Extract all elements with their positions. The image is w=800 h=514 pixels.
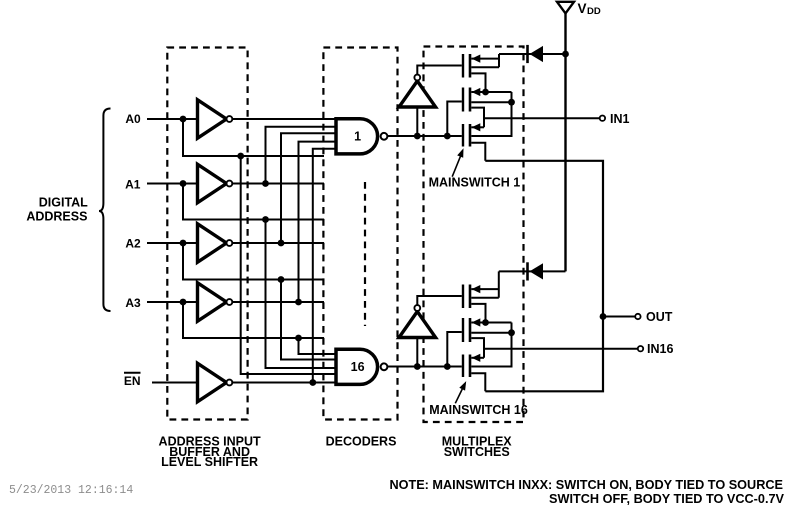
wire Q6 drain tap to body node (471, 333, 511, 367)
wire A3 input (147, 301, 198, 303)
junction A0 input (180, 116, 187, 123)
svg-text:OUT: OUT (646, 310, 673, 324)
wire rail A1-not to decoder 1 (266, 127, 337, 184)
svg-text:NOTE: MAINSWITCH INXX: SWITCH: NOTE: MAINSWITCH INXX: SWITCH ON, BODY T… (389, 478, 783, 492)
wire rail A2-not to decoder 1 (281, 133, 336, 243)
junction VDD / diode D1 (562, 51, 569, 58)
svg-text:A1: A1 (125, 177, 141, 191)
junction Q1 source / Q2 body (482, 89, 489, 96)
wire Q1 source to Q2 body (471, 73, 485, 92)
wire Q2 source to Q3 body (471, 108, 484, 128)
transistor Q1 body-tie switch (group 1 top) (463, 54, 470, 78)
wire rail A0 to decoder 16 (241, 156, 337, 374)
buffer U3 (A2) (198, 224, 233, 262)
junction A0 bypass tap (237, 153, 244, 160)
junction A1-not rail tap (262, 180, 269, 187)
digital address brace (99, 109, 111, 312)
transistor Q2 body-tie switch (group 1 middle) (463, 88, 470, 112)
wire Q4 drain tap (471, 297, 499, 299)
dashed box: decoders (323, 48, 397, 420)
wire Q4 source to Q5 body (471, 304, 485, 323)
junction A2 bypass tap (278, 276, 285, 283)
wire to VDD via diode D2 (499, 270, 566, 272)
junction Q2 drain-body node (508, 99, 515, 106)
svg-text:IN1: IN1 (610, 112, 630, 126)
wire IN16 line (484, 348, 638, 350)
svg-text:A0: A0 (125, 112, 141, 126)
svg-text:DIGITAL: DIGITAL (39, 195, 88, 209)
wire A0 input (147, 118, 198, 120)
svg-text:A2: A2 (125, 236, 141, 250)
nand gate decoder 1 (336, 119, 387, 154)
wire A1 buffer output (232, 183, 324, 185)
junction A2-not rail tap (278, 240, 285, 247)
wire output bus (switch sources to OUT) (485, 161, 603, 391)
junction OUT tap (600, 313, 607, 320)
buffer U1 (A0) (198, 100, 233, 138)
wire Q5 gate lead (447, 332, 462, 367)
wire A0 buffer output to decoder 1 input (232, 118, 336, 120)
buffer U4 (A3) (198, 283, 233, 321)
wire A2 buffer output (232, 242, 324, 244)
wire A0 bypass branch (183, 119, 324, 156)
wire rail A3 to decoder 16 (299, 338, 338, 354)
junction decoder 16 output / inverter tap (414, 363, 421, 370)
wire A2 input (147, 242, 198, 244)
wire A1 input (147, 183, 198, 185)
diode D1 (528, 45, 544, 63)
wire decoder 1 output line (387, 135, 461, 137)
decoder continuation dashed line (364, 182, 366, 326)
svg-text:SWITCH OFF, BODY TIED TO VCC-0: SWITCH OFF, BODY TIED TO VCC-0.7V (549, 492, 785, 506)
wire IN1 line (484, 117, 600, 119)
svg-text:MAINSWITCH 1: MAINSWITCH 1 (429, 175, 521, 189)
wire Q4 body lead with arrow (471, 288, 499, 290)
wire inverter 16 input tap (416, 338, 418, 367)
inverter U6 (body-switch driver 1) (399, 75, 436, 107)
wire Q6 source to output bus (471, 373, 485, 391)
wire Q4 drain-body junction vertical (498, 271, 500, 297)
junction A3-not rail tap (295, 299, 302, 306)
wire decoder 16 output line (387, 366, 461, 368)
wire A1 bypass branch (183, 184, 324, 220)
svg-text:IN16: IN16 (647, 342, 673, 356)
wire Q5 body to drain node (511, 323, 513, 333)
wire rail A2 to decoder 16 (281, 280, 337, 360)
svg-text:SWITCHES: SWITCHES (444, 445, 510, 459)
wire inverter 1 input tap (416, 107, 418, 136)
svg-text:5/23/2013 12:16:14: 5/23/2013 12:16:14 (9, 484, 133, 497)
wire Q3 source to output bus (471, 143, 485, 161)
svg-text:16: 16 (351, 360, 365, 374)
terminal IN1 (600, 116, 605, 121)
wire to VDD via diode D1 (499, 53, 566, 55)
wire Q1 gate lead from inverter U6 (417, 66, 462, 75)
junction A1 input (180, 180, 187, 187)
terminal OUT (635, 314, 640, 319)
transistor Q3 MAINSWITCH 1 (463, 124, 470, 147)
buffer U2 (A1) (198, 164, 233, 202)
svg-text:DECODERS: DECODERS (326, 435, 397, 449)
wire VDD rail (564, 13, 566, 271)
nand gate decoder 16 (336, 349, 387, 384)
wire OUT lead (603, 316, 635, 318)
wire A3 buffer output (232, 301, 324, 303)
wire Q2 body lead with arrow (471, 91, 511, 93)
svg-text:DD: DD (587, 6, 601, 17)
junction EN-not rail tap (309, 379, 316, 386)
junction A1 bypass tap (262, 216, 269, 223)
junction A3 input (180, 299, 187, 306)
junction A2 input (180, 240, 187, 247)
wire Q6 body lead with arrow (471, 357, 484, 359)
wire Q5 source to Q6 body (471, 338, 484, 358)
junction decoder 1 output / T2 gate tap (444, 133, 451, 140)
transistor Q4 body-tie switch (group 16 top) (463, 285, 470, 309)
wire Q2 drain tap (471, 101, 511, 103)
svg-text:EN: EN (124, 374, 141, 388)
wire EN buffer output to decoder 16 input (232, 382, 337, 384)
svg-text:V: V (578, 1, 587, 16)
wire EN input (152, 382, 198, 384)
wire Q3 body lead with arrow (471, 126, 484, 128)
transistor Q6 MAINSWITCH 16 (463, 355, 470, 378)
label MAINSWITCH 16 with pointer arrow (429, 381, 528, 417)
label MAINSWITCH 1 with pointer arrow (429, 148, 521, 189)
buffer U5 (EN) (198, 363, 233, 401)
wire Q3 drain tap to body node (471, 102, 511, 136)
wire rail A3-not to decoder 1 (299, 142, 337, 302)
junction decoder 16 output / T2 gate tap (444, 363, 451, 370)
wire A2 bypass branch (183, 243, 324, 280)
junction decoder 1 output / inverter tap (414, 133, 421, 140)
wire A3 bypass branch (183, 302, 324, 338)
wire Q1 body lead with arrow (471, 58, 499, 60)
diode D2 (528, 262, 544, 280)
junction A3 bypass tap (295, 335, 302, 342)
svg-text:MAINSWITCH 16: MAINSWITCH 16 (429, 403, 528, 417)
wire rail EN-not to decoder 1 (313, 149, 336, 383)
transistor Q5 body-tie switch (group 16 middle) (463, 318, 470, 342)
svg-text:ADDRESS: ADDRESS (26, 209, 87, 223)
wire Q2 body to drain node (511, 92, 513, 102)
wire rail A1 to decoder 16 (266, 220, 338, 369)
svg-text:A3: A3 (125, 296, 141, 310)
terminal IN16 (638, 346, 643, 351)
wire Q1 drain-body junction vertical (498, 54, 500, 67)
wire Q5 body lead with arrow (471, 322, 511, 324)
svg-text:1: 1 (354, 130, 361, 144)
inverter U7 (body-switch driver 16) (399, 305, 436, 337)
svg-text:LEVEL SHIFTER: LEVEL SHIFTER (161, 455, 258, 469)
dashed box: multiplex switches (424, 47, 524, 423)
junction Q4 source / Q5 body (482, 319, 489, 326)
wire Q4 gate lead from inverter U7 (417, 296, 462, 305)
wire Q2 gate lead (447, 102, 462, 137)
wire Q5 drain tap (471, 332, 511, 334)
junction Q5 drain-body node (508, 329, 515, 336)
wire Q1 drain tap (471, 66, 499, 68)
power VDD symbol (557, 1, 601, 17)
dashed box: address input buffer and level shifter (167, 48, 247, 420)
